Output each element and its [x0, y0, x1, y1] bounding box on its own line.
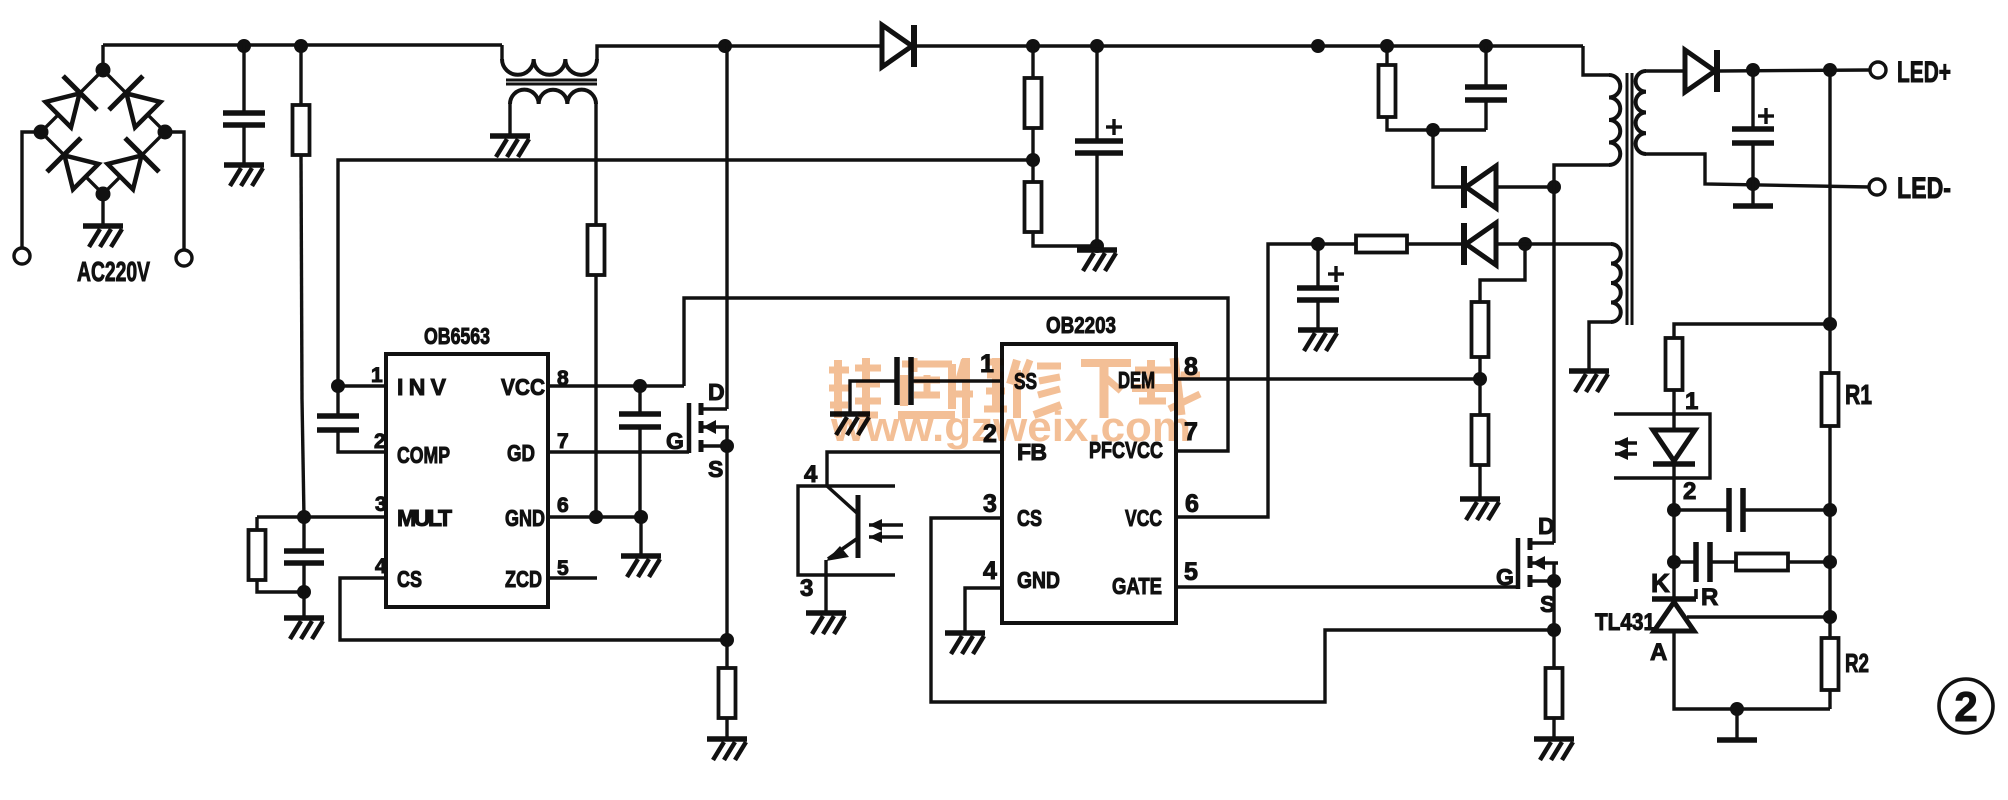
svg-text:D: D	[1538, 513, 1555, 539]
svg-text:2: 2	[1954, 683, 1977, 730]
svg-text:S: S	[708, 456, 723, 482]
svg-text:G: G	[666, 428, 684, 454]
svg-text:GD: GD	[507, 440, 535, 466]
svg-text:LED+: LED+	[1897, 56, 1951, 89]
svg-text:GND: GND	[505, 505, 545, 531]
svg-text:OB2203: OB2203	[1046, 312, 1116, 338]
svg-text:2: 2	[374, 430, 386, 453]
svg-text:GATE: GATE	[1112, 573, 1162, 599]
svg-text:R: R	[1701, 584, 1718, 611]
svg-text:4: 4	[983, 557, 997, 585]
svg-text:VCC: VCC	[1125, 505, 1162, 531]
svg-text:CS: CS	[1017, 505, 1042, 531]
svg-text:3: 3	[983, 490, 997, 518]
svg-text:6: 6	[557, 494, 569, 517]
svg-text:AC220V: AC220V	[77, 256, 150, 287]
svg-text:VCC: VCC	[501, 374, 545, 400]
svg-text:3: 3	[375, 493, 387, 516]
svg-text:2: 2	[1683, 478, 1696, 505]
svg-text:TL431: TL431	[1595, 609, 1655, 636]
svg-text:GND: GND	[1017, 567, 1060, 593]
svg-text:5: 5	[1184, 558, 1198, 586]
svg-text:R2: R2	[1845, 648, 1869, 678]
svg-text:4: 4	[804, 461, 818, 488]
svg-text:6: 6	[1185, 490, 1199, 518]
svg-text:R1: R1	[1845, 379, 1872, 410]
svg-text:3: 3	[800, 575, 813, 602]
svg-text:A: A	[1650, 639, 1667, 666]
svg-text:MULT: MULT	[397, 505, 452, 531]
svg-text:OB6563: OB6563	[424, 323, 490, 349]
svg-text:LED-: LED-	[1897, 172, 1951, 205]
svg-text:1: 1	[371, 364, 383, 387]
svg-text:S: S	[1540, 591, 1555, 617]
svg-text:www.gzweix.com: www.gzweix.com	[830, 403, 1191, 450]
svg-text:G: G	[1496, 564, 1514, 590]
svg-text:ZCD: ZCD	[505, 566, 542, 592]
svg-text:CS: CS	[397, 566, 422, 592]
svg-text:K: K	[1651, 568, 1670, 598]
svg-text:1: 1	[1685, 388, 1698, 415]
svg-text:7: 7	[557, 430, 569, 453]
svg-text:COMP: COMP	[397, 442, 450, 468]
svg-text:4: 4	[375, 555, 387, 578]
svg-text:D: D	[708, 379, 725, 405]
